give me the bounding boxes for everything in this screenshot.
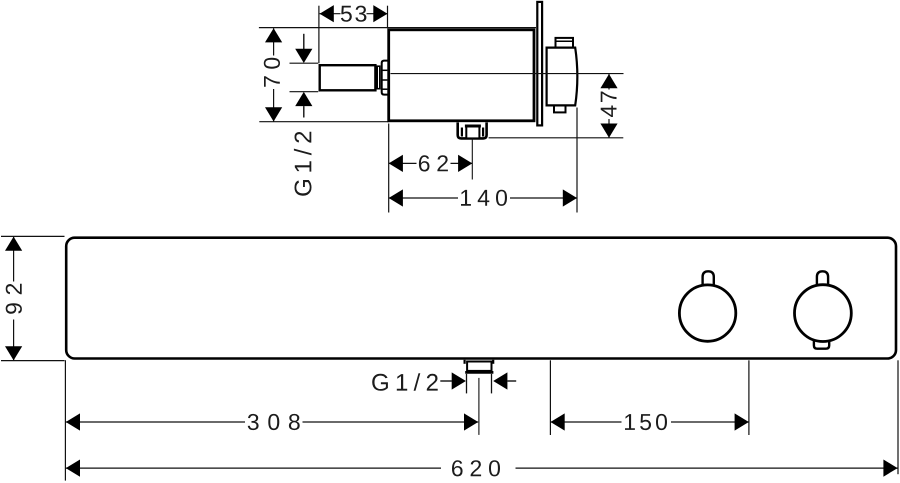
dim 62 line [389, 162, 473, 164]
dim 47 arrow top [600, 74, 617, 88]
knob 1 top tab [703, 271, 714, 286]
dim 150 arrow right [735, 413, 749, 430]
dim 140 arrow right [563, 189, 577, 206]
dim 92 arrow bottom [5, 346, 22, 360]
outlet hex corner right [492, 360, 494, 364]
dim 92 line [13, 237, 15, 361]
G1/2 leader arrow left [440, 372, 466, 389]
outlet nut center line [471, 139, 473, 180]
shower arm pipe [320, 65, 376, 90]
dim 53 extension line right [387, 6, 389, 29]
dim 53 arrow left [320, 5, 334, 22]
pipe thread label G1/2 [294, 132, 312, 196]
pipe thread callout arrow lower [295, 92, 312, 118]
dim 620 extension line right [897, 360, 899, 474]
dim 308 arrow left [66, 413, 80, 430]
dim 308 arrow right [464, 413, 478, 430]
dim 140 extension line left [388, 124, 390, 213]
wall plate [537, 2, 542, 126]
knob 2 top tab [817, 271, 828, 286]
top extension line at body top [259, 27, 536, 29]
dim 70 label [264, 58, 280, 87]
dim 70 line [273, 28, 275, 121]
dim 150 extension line right [748, 360, 750, 435]
dim 92 extension line top [1, 235, 65, 237]
dim 140 arrow left [389, 189, 403, 206]
dim 53 line [320, 13, 388, 15]
dim 53 label [341, 6, 367, 22]
outlet nut (side view) [458, 122, 487, 138]
dim 70 arrow top [265, 28, 282, 42]
dim 47 line [608, 74, 610, 138]
outlet center extension line [478, 378, 480, 435]
dim 62 label [419, 155, 448, 171]
wall connector escutcheon [547, 48, 578, 106]
mixer body (side view) [389, 30, 534, 121]
pipe top extension line [290, 62, 319, 64]
dim 92 arrow top [5, 237, 22, 251]
outlet hex corner left [464, 360, 466, 364]
centerline [391, 73, 624, 75]
outlet nut bottom extension line [489, 137, 624, 139]
wall connector top tab [556, 38, 574, 48]
dim 47 label [601, 91, 617, 117]
dim 620 arrow right [883, 460, 897, 477]
dim 308/620 extension line left [64, 360, 66, 480]
dim 47 arrow bottom [600, 124, 617, 138]
outlet nut (front view) [465, 362, 493, 373]
dim 53 arrow right [373, 5, 387, 22]
shower bar (front view) [66, 238, 896, 359]
wall connector bottom tab [554, 106, 566, 113]
pipe thread flange [381, 61, 388, 95]
dim 150 extension line left [549, 360, 551, 435]
dim 150 line [551, 421, 749, 423]
dim 620 label [452, 460, 500, 476]
dim 140 extension line right [576, 108, 578, 213]
dim 308 line [66, 421, 478, 423]
outlet stub [467, 374, 492, 394]
dim 140 label [461, 190, 507, 206]
G1/2 label (front) [372, 373, 438, 391]
dim 140 line [389, 197, 577, 199]
knob 2 bottom foot [814, 340, 829, 349]
dim 62 arrow right [458, 155, 472, 172]
dim 53 extension line left [318, 6, 320, 64]
dim 92 label [6, 284, 22, 314]
dim 150 label [625, 414, 667, 430]
knob 2 (volume handle) [795, 285, 852, 342]
dim 62 arrow left [389, 155, 403, 172]
pipe thread callout arrow upper [295, 34, 312, 63]
dim 150 arrow left [551, 413, 565, 430]
G1/2 leader arrow right [493, 372, 516, 389]
bottom extension line at body bottom [259, 121, 388, 123]
knob 1 (thermostat handle) [679, 285, 735, 341]
dim 308 label [248, 414, 300, 430]
dim 620 arrow left [66, 460, 80, 477]
dim 70 arrow bottom [265, 107, 282, 121]
dim 92 extension line bottom [1, 360, 65, 362]
pipe locknut band [377, 66, 380, 89]
pipe bottom extension line [290, 91, 319, 93]
dim 620 line [66, 467, 898, 469]
